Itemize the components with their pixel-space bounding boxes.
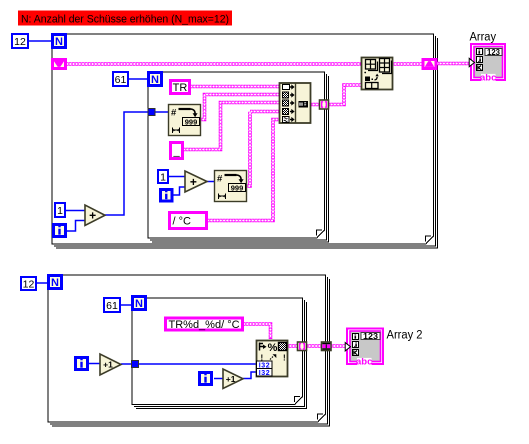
svg-text:1: 1: [57, 205, 63, 217]
svg-text:!: !: [283, 354, 286, 363]
svg-text:61: 61: [115, 74, 127, 86]
svg-text:TR%d_%d/ °C: TR%d_%d/ °C: [169, 319, 240, 331]
svg-text:Array: Array: [470, 32, 497, 44]
svg-text:999: 999: [185, 117, 198, 126]
svg-text:+: +: [89, 209, 96, 223]
svg-text:N: N: [51, 277, 59, 289]
svg-text:61: 61: [106, 300, 118, 312]
svg-text:N: N: [151, 74, 159, 86]
svg-text:N: Anzahl der Schüsse erhöhen: N: Anzahl der Schüsse erhöhen (N_max=12): [21, 14, 229, 26]
svg-text:+1: +1: [226, 374, 236, 384]
svg-text:#: #: [217, 174, 223, 185]
svg-text:1: 1: [160, 171, 166, 183]
svg-text:#: #: [171, 108, 177, 119]
svg-text:123: 123: [363, 332, 379, 341]
svg-text:999: 999: [231, 183, 244, 192]
svg-text:%: %: [268, 342, 278, 354]
svg-text:Array 2: Array 2: [387, 330, 423, 342]
svg-text:N: N: [135, 298, 143, 310]
svg-text:abc: abc: [356, 357, 372, 368]
svg-text:I32: I32: [259, 370, 270, 377]
svg-text:abc: abc: [480, 73, 496, 84]
svg-text:_: _: [172, 145, 180, 157]
svg-text:/ °C: / °C: [173, 215, 192, 227]
svg-text:123: 123: [487, 48, 501, 57]
svg-text:12: 12: [14, 36, 26, 48]
svg-text:+1: +1: [103, 360, 113, 370]
svg-text:12: 12: [23, 278, 35, 290]
svg-text:TR: TR: [173, 82, 188, 94]
svg-text:N: N: [55, 36, 63, 48]
svg-text:+: +: [190, 175, 197, 189]
